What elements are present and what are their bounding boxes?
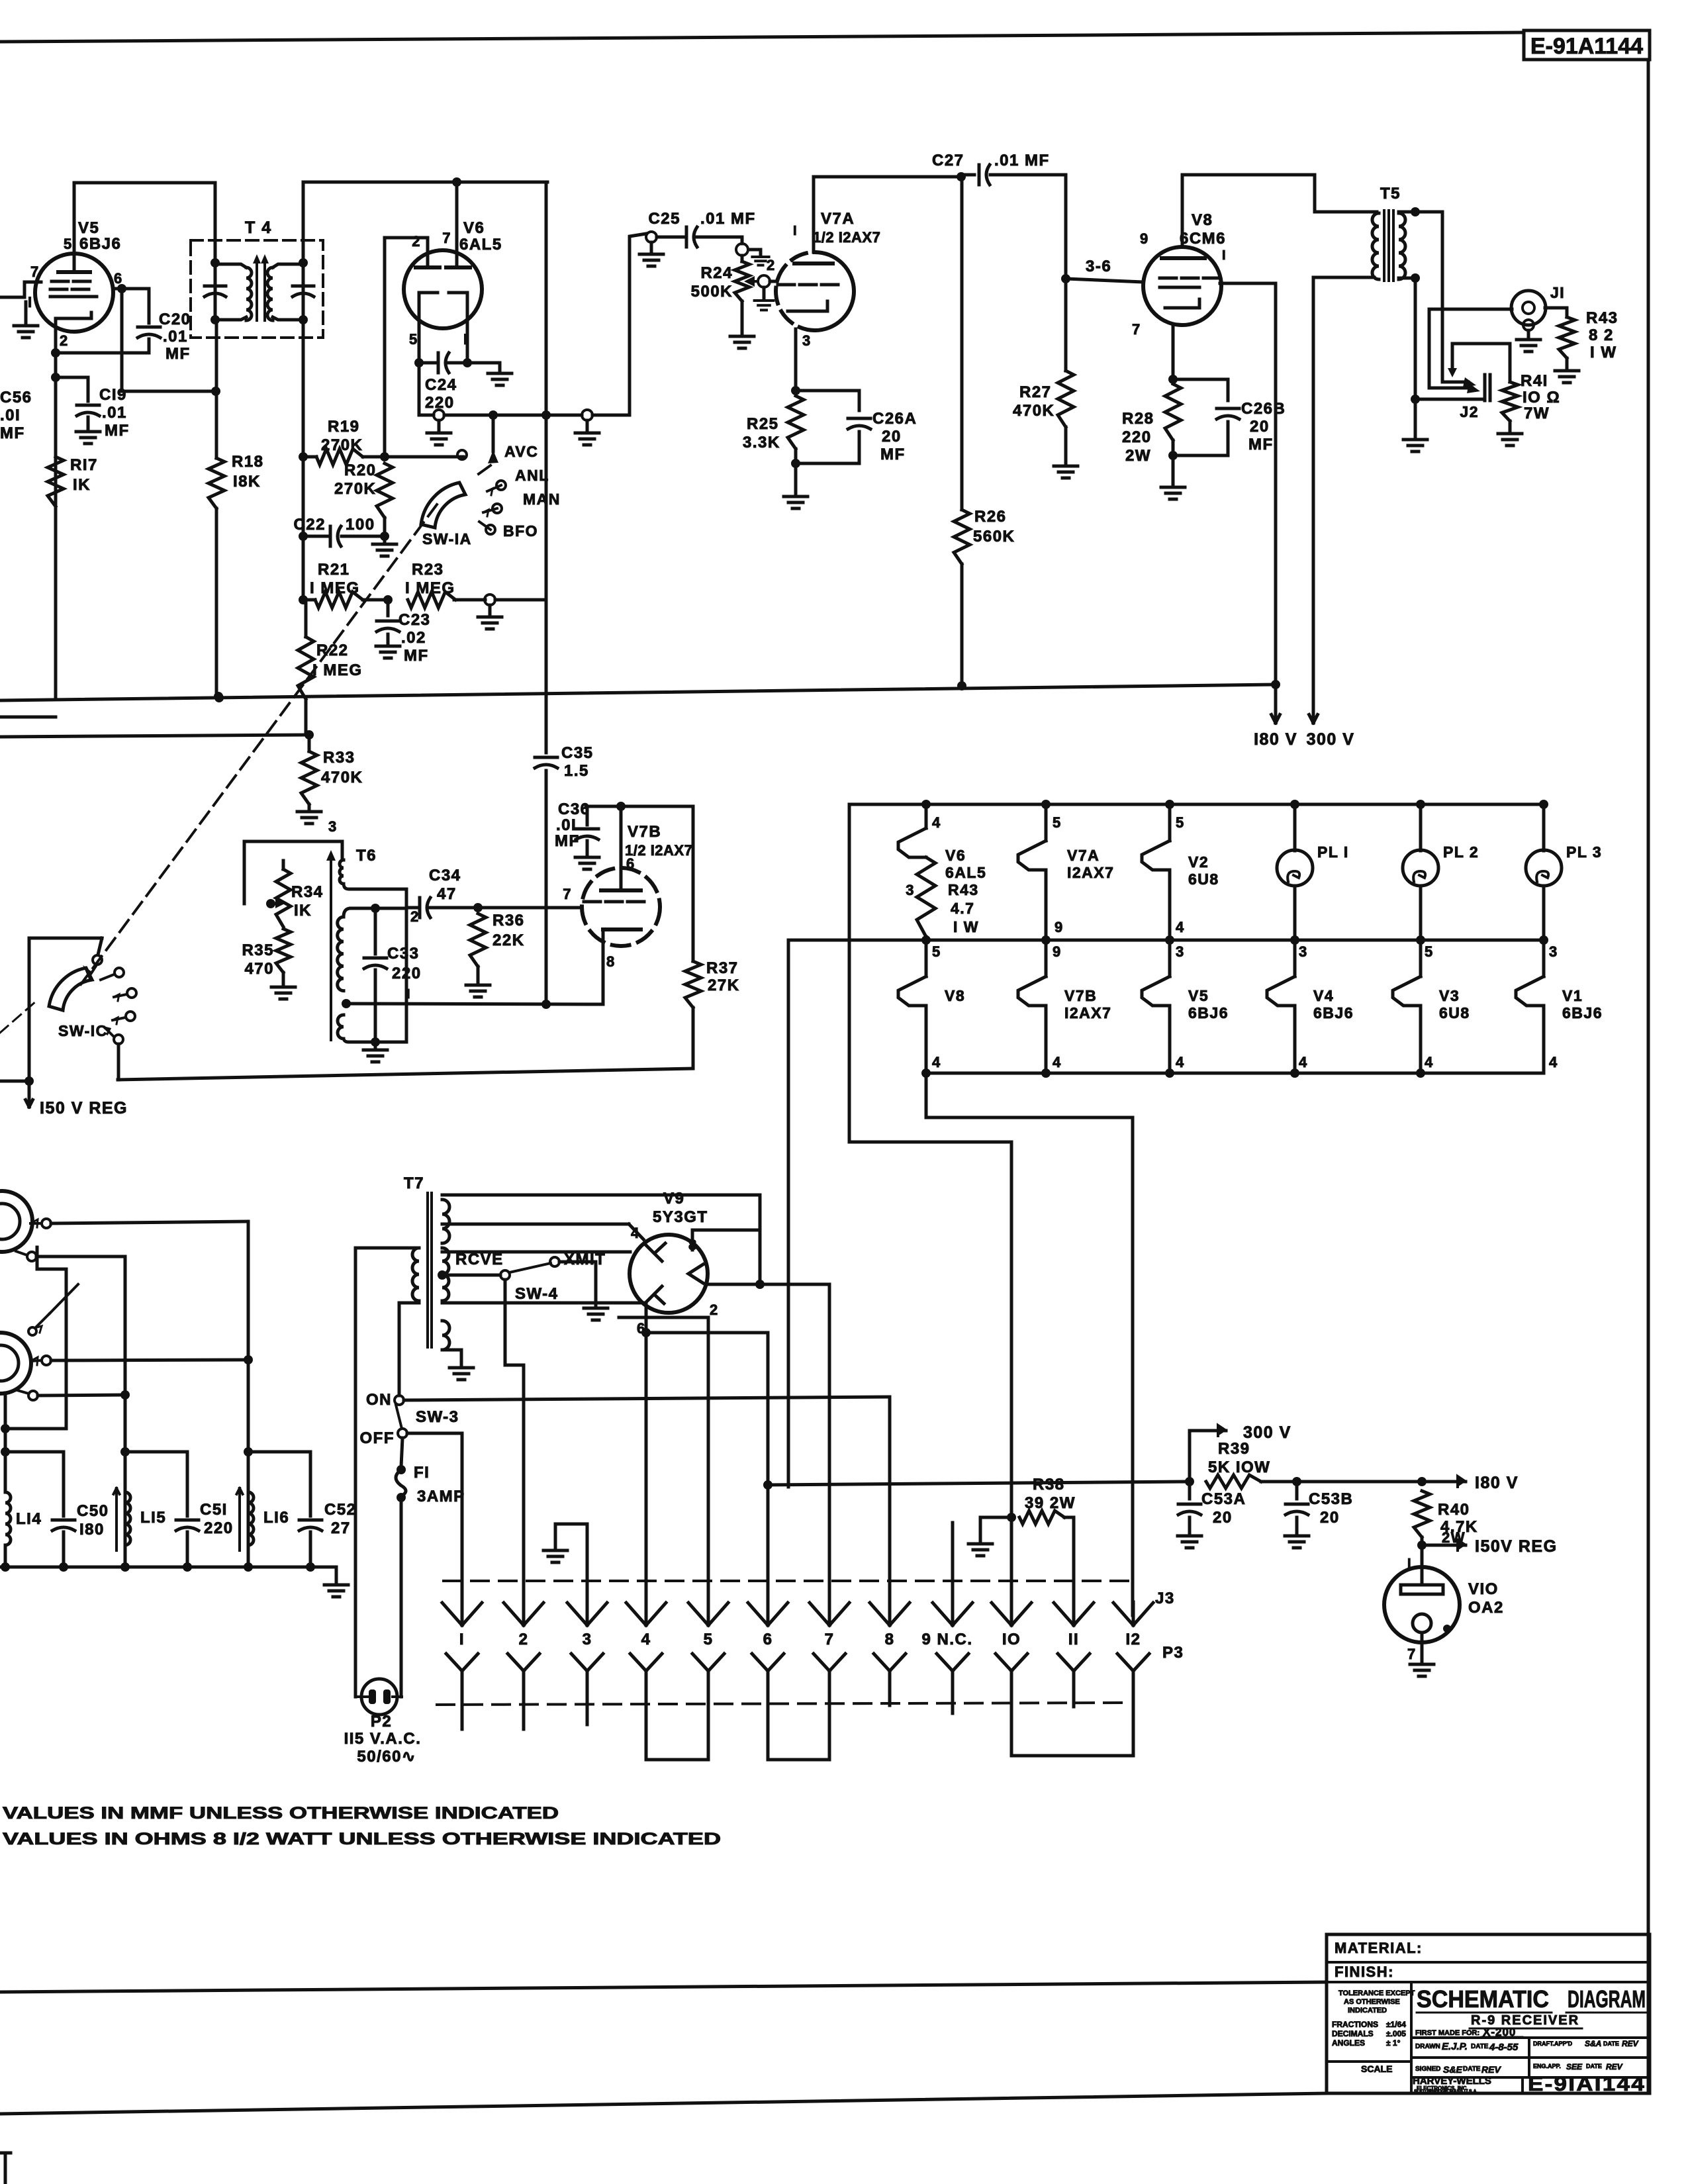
svg-text:.02: .02 [401, 629, 426, 647]
svg-text:27: 27 [331, 1519, 351, 1537]
svg-text:PL 2: PL 2 [1443, 843, 1479, 861]
svg-text:V9: V9 [663, 1190, 684, 1208]
svg-text:LI4: LI4 [16, 1510, 42, 1528]
svg-text:4-8-55: 4-8-55 [1489, 2042, 1519, 2053]
svg-text:LI5: LI5 [140, 1509, 166, 1527]
svg-text:DIAGRAM: DIAGRAM [1568, 1985, 1646, 2013]
svg-text:II: II [1068, 1631, 1079, 1648]
svg-text:R40: R40 [1438, 1501, 1470, 1519]
svg-text:4: 4 [631, 1225, 640, 1241]
svg-text:ANGLES: ANGLES [1332, 2038, 1365, 2048]
svg-text:3: 3 [802, 332, 812, 349]
svg-text:39 2W: 39 2W [1025, 1494, 1076, 1512]
svg-text:DRAWN: DRAWN [1415, 2043, 1440, 2050]
svg-text:8: 8 [606, 953, 616, 970]
svg-text:V7A: V7A [821, 210, 855, 228]
svg-text:V7A: V7A [1067, 847, 1100, 864]
svg-text:2: 2 [710, 1302, 719, 1318]
svg-text:470K: 470K [1013, 402, 1055, 420]
svg-text:6U8: 6U8 [1439, 1004, 1470, 1021]
svg-text:20: 20 [882, 428, 902, 446]
svg-text:VALUES IN OHMS 8 I/2 WATT UN: VALUES IN OHMS 8 I/2 WATT UNLESS OTHERWI… [3, 1830, 721, 1848]
svg-text:V7B: V7B [628, 823, 661, 841]
svg-text:C35: C35 [561, 744, 594, 762]
svg-text:5K IOW: 5K IOW [1208, 1458, 1270, 1476]
svg-text:4: 4 [1176, 919, 1185, 935]
svg-text:I: I [793, 224, 798, 238]
svg-text:4: 4 [932, 814, 941, 831]
svg-text:470: 470 [244, 960, 274, 978]
svg-text:VIO: VIO [1468, 1580, 1499, 1598]
svg-text:.0I: .0I [556, 816, 577, 834]
svg-text:R43: R43 [948, 881, 979, 898]
svg-text:AVC: AVC [504, 443, 538, 460]
svg-text:R37: R37 [706, 959, 739, 977]
svg-text:I W: I W [1590, 344, 1617, 361]
svg-text:R21: R21 [318, 561, 350, 579]
svg-text:4: 4 [1549, 1054, 1558, 1070]
svg-text:4.7: 4.7 [951, 900, 974, 917]
svg-text:I50V REG: I50V REG [1475, 1537, 1558, 1556]
svg-text:3: 3 [583, 1631, 592, 1648]
svg-text:I2AX7: I2AX7 [1064, 1004, 1111, 1021]
svg-text:SW-4: SW-4 [515, 1285, 559, 1303]
svg-text:3: 3 [1176, 943, 1185, 960]
svg-text:R43: R43 [1586, 309, 1618, 327]
svg-text:V5: V5 [1188, 987, 1209, 1004]
svg-text:DATE: DATE [1463, 2065, 1481, 2073]
svg-text:MF: MF [0, 424, 25, 442]
svg-text:ON: ON [366, 1391, 392, 1409]
svg-text:V7B: V7B [1064, 987, 1097, 1004]
svg-text:5: 5 [64, 236, 73, 252]
svg-text:2: 2 [767, 257, 776, 273]
svg-text:7: 7 [825, 1631, 835, 1648]
svg-text:I80 V: I80 V [1475, 1474, 1519, 1492]
svg-text:C23: C23 [399, 611, 431, 629]
svg-text:BFO: BFO [503, 522, 538, 540]
svg-text:R33: R33 [323, 749, 355, 767]
svg-text:7: 7 [1407, 1646, 1417, 1662]
svg-text:T 4: T 4 [245, 218, 272, 237]
svg-text:7: 7 [1132, 321, 1141, 338]
svg-text:FRACTIONS: FRACTIONS [1332, 2020, 1378, 2029]
svg-text:C34: C34 [429, 867, 461, 884]
svg-text:ANL: ANL [515, 467, 549, 484]
svg-text:C25: C25 [648, 210, 680, 228]
svg-text:II5 V.A.C.: II5 V.A.C. [344, 1730, 422, 1748]
svg-text:RI7: RI7 [70, 456, 98, 474]
svg-text:R23: R23 [412, 561, 444, 579]
svg-text:R24: R24 [700, 264, 733, 282]
svg-text:R38: R38 [1033, 1476, 1065, 1494]
svg-text:270K: 270K [334, 480, 376, 498]
svg-text:2: 2 [60, 332, 69, 349]
svg-text:I MEG: I MEG [310, 579, 360, 597]
svg-text:C52: C52 [324, 1501, 357, 1519]
svg-text:3: 3 [1299, 943, 1308, 960]
svg-text:P3: P3 [1162, 1644, 1184, 1662]
svg-text:V1: V1 [1562, 987, 1583, 1004]
svg-text:R18: R18 [232, 453, 264, 471]
svg-text:6BJ6: 6BJ6 [1562, 1004, 1603, 1021]
svg-text:MF: MF [880, 446, 906, 463]
svg-text:FINISH:: FINISH: [1335, 1964, 1394, 1980]
svg-text:7: 7 [30, 263, 40, 280]
svg-text:3AMP: 3AMP [417, 1488, 465, 1505]
svg-text:V5: V5 [78, 219, 99, 237]
svg-text:6: 6 [626, 855, 635, 872]
svg-text:TOLERANCE EXCEPT: TOLERANCE EXCEPT [1338, 1989, 1415, 1997]
svg-text:1/2 I2AX7: 1/2 I2AX7 [813, 229, 880, 246]
svg-text:R4I: R4I [1521, 372, 1548, 390]
svg-text:9: 9 [1055, 919, 1064, 935]
svg-text:±1/64: ±1/64 [1386, 2020, 1406, 2029]
svg-text:7: 7 [563, 886, 572, 902]
svg-text:6: 6 [763, 1631, 773, 1648]
svg-text:V6: V6 [463, 219, 485, 237]
svg-text:7: 7 [442, 230, 451, 246]
svg-text:4: 4 [1425, 1054, 1434, 1070]
svg-text:4: 4 [1053, 1054, 1062, 1070]
svg-text:LI6: LI6 [263, 1509, 289, 1527]
svg-text:2W: 2W [1125, 447, 1151, 465]
svg-text:C24: C24 [425, 376, 457, 394]
svg-text:DATE: DATE [1603, 2040, 1619, 2047]
svg-text:3.3K: 3.3K [743, 434, 780, 451]
svg-text:R19: R19 [328, 418, 360, 436]
svg-text:C26B: C26B [1241, 400, 1286, 418]
svg-text:I8K: I8K [233, 473, 261, 491]
svg-text:.01 MF: .01 MF [700, 210, 756, 228]
svg-text:300 V: 300 V [1243, 1423, 1291, 1442]
svg-text:5: 5 [1176, 814, 1185, 831]
svg-text:6AL5: 6AL5 [945, 864, 986, 881]
svg-text:500K: 500K [691, 283, 733, 301]
svg-text:100: 100 [346, 516, 375, 534]
svg-text:±.005: ±.005 [1386, 2029, 1406, 2038]
svg-text:R22: R22 [316, 641, 349, 659]
svg-text:8 2: 8 2 [1589, 326, 1614, 344]
svg-text:560K: 560K [973, 528, 1015, 546]
svg-text:I MEG: I MEG [312, 661, 363, 679]
svg-text:9 N.C.: 9 N.C. [921, 1631, 972, 1648]
svg-text:R34: R34 [291, 883, 324, 901]
svg-text:9: 9 [1053, 943, 1062, 960]
svg-text:R20: R20 [344, 461, 377, 479]
svg-text:C20: C20 [159, 310, 191, 328]
svg-text:MATERIAL:: MATERIAL: [1335, 1940, 1423, 1956]
svg-text:3: 3 [328, 818, 338, 835]
svg-text:20: 20 [1213, 1509, 1233, 1527]
svg-text:SCALE: SCALE [1361, 2064, 1392, 2074]
svg-text:I80 V: I80 V [1254, 730, 1297, 749]
svg-text:C36: C36 [558, 800, 590, 818]
svg-text:220: 220 [1122, 428, 1152, 446]
svg-text:REV: REV [1481, 2064, 1501, 2075]
svg-text:C22: C22 [293, 516, 326, 534]
svg-text:I: I [1222, 248, 1227, 263]
svg-text:9: 9 [1140, 230, 1149, 247]
svg-text:T6: T6 [356, 847, 377, 865]
svg-text:220: 220 [392, 965, 422, 982]
svg-text:I2: I2 [1125, 1631, 1141, 1648]
svg-text:I2AX7: I2AX7 [1067, 864, 1114, 881]
svg-text:RCVE: RCVE [455, 1251, 504, 1268]
svg-text:ENG.APP.: ENG.APP. [1533, 2063, 1561, 2069]
svg-text:C53B: C53B [1309, 1490, 1353, 1508]
svg-text:R35: R35 [242, 941, 274, 959]
svg-text:4: 4 [932, 1054, 941, 1070]
svg-text:E-91A1144: E-91A1144 [1530, 34, 1643, 59]
svg-text:IK: IK [294, 902, 312, 920]
svg-text:SOUTHBRIDGE,MASS.U.S.A.: SOUTHBRIDGE,MASS.U.S.A. [1414, 2089, 1478, 2094]
svg-text:3: 3 [906, 882, 915, 898]
svg-text:3-6: 3-6 [1086, 258, 1111, 275]
svg-text:T7: T7 [404, 1174, 424, 1192]
svg-text:XMIT: XMIT [564, 1251, 606, 1268]
svg-text:J2: J2 [1460, 403, 1479, 420]
svg-text:C33: C33 [387, 945, 420, 963]
svg-text:I W: I W [953, 918, 979, 935]
svg-text:4: 4 [641, 1631, 651, 1648]
svg-text:S&A: S&A [1585, 2039, 1601, 2048]
svg-text:.01 MF: .01 MF [994, 152, 1050, 169]
svg-text:V8: V8 [945, 987, 965, 1004]
svg-text:2: 2 [412, 233, 421, 250]
svg-text:J3: J3 [1155, 1590, 1175, 1607]
svg-text:IO Ω: IO Ω [1523, 389, 1560, 406]
svg-text:22K: 22K [492, 931, 525, 949]
svg-text:INDICATED: INDICATED [1348, 2007, 1387, 2015]
svg-text:SW-3: SW-3 [416, 1408, 459, 1426]
svg-text:R26: R26 [974, 508, 1007, 526]
svg-text:I MEG: I MEG [405, 579, 455, 597]
svg-text:MF: MF [105, 422, 130, 440]
svg-text:SEE: SEE [1566, 2062, 1583, 2071]
svg-text:C53A: C53A [1201, 1490, 1246, 1508]
svg-text:20: 20 [1320, 1509, 1340, 1527]
svg-text:5: 5 [1425, 943, 1434, 960]
svg-text:R28: R28 [1122, 410, 1154, 428]
svg-text:IK: IK [73, 476, 91, 494]
svg-text:T5: T5 [1380, 185, 1401, 203]
svg-text:47: 47 [437, 885, 457, 903]
svg-text:5: 5 [1053, 814, 1062, 831]
svg-text:C27: C27 [932, 152, 964, 169]
svg-text:IO: IO [1002, 1631, 1021, 1648]
svg-text:DRAFT.APP'D: DRAFT.APP'D [1533, 2040, 1573, 2047]
svg-text:6BJ6: 6BJ6 [1188, 1004, 1229, 1021]
svg-text:C26A: C26A [872, 410, 917, 428]
svg-text:6AL5: 6AL5 [459, 236, 502, 254]
svg-text:REV: REV [1606, 2062, 1623, 2071]
svg-text:DECIMALS: DECIMALS [1332, 2029, 1374, 2038]
svg-text:4: 4 [1176, 1054, 1185, 1070]
svg-text:PL I: PL I [1317, 843, 1349, 861]
svg-text:50/60∿: 50/60∿ [357, 1748, 416, 1766]
svg-text:27K: 27K [708, 976, 740, 994]
svg-text:I: I [459, 1631, 465, 1648]
svg-text:E-9IAI144: E-9IAI144 [1528, 2072, 1646, 2095]
svg-text:2: 2 [519, 1631, 529, 1648]
svg-text:VALUES IN MMF UNLESS OTHERWISE: VALUES IN MMF UNLESS OTHERWISE INDICATED [3, 1804, 559, 1823]
svg-text:REV: REV [1622, 2039, 1639, 2048]
svg-text:C5I: C5I [200, 1501, 228, 1519]
svg-text:± 1°: ± 1° [1386, 2038, 1401, 2048]
svg-text:DATE: DATE [1586, 2063, 1602, 2069]
svg-text:220: 220 [204, 1519, 234, 1537]
svg-text:AS OTHERWISE: AS OTHERWISE [1344, 1998, 1400, 2006]
svg-text:270K: 270K [321, 436, 363, 454]
svg-text:5: 5 [932, 943, 941, 960]
svg-text:V8: V8 [1192, 211, 1213, 229]
svg-text:I80: I80 [79, 1521, 105, 1539]
svg-text:OFF: OFF [360, 1429, 395, 1447]
svg-text:P2: P2 [371, 1713, 392, 1731]
svg-text:I: I [28, 294, 33, 310]
svg-text:R25: R25 [747, 415, 779, 433]
svg-text:1.5: 1.5 [564, 762, 589, 780]
svg-text:8: 8 [885, 1631, 895, 1648]
svg-text:V4: V4 [1313, 987, 1334, 1004]
svg-text:PL 3: PL 3 [1566, 843, 1602, 861]
svg-text:MF: MF [404, 647, 429, 665]
svg-text:MF: MF [165, 345, 191, 363]
svg-text:5: 5 [409, 331, 418, 348]
svg-text:FI: FI [414, 1464, 430, 1482]
svg-text:E.J.P.: E.J.P. [1442, 2041, 1468, 2052]
svg-text:R36: R36 [492, 912, 525, 929]
svg-text:6BJ6: 6BJ6 [79, 235, 121, 253]
svg-text:.0I: .0I [0, 406, 21, 424]
svg-text:OA2: OA2 [1468, 1599, 1504, 1617]
svg-text:20: 20 [1250, 418, 1270, 436]
svg-text:4: 4 [1299, 1054, 1308, 1070]
svg-text:.01: .01 [102, 404, 127, 422]
svg-text:V2: V2 [1188, 853, 1209, 871]
svg-text:6CM6: 6CM6 [1180, 230, 1226, 248]
svg-text:V3: V3 [1439, 987, 1460, 1004]
svg-text:6U8: 6U8 [1188, 871, 1219, 888]
svg-text:R27: R27 [1019, 383, 1052, 401]
svg-text:I: I [406, 987, 411, 1002]
svg-text:.01: .01 [163, 328, 188, 346]
svg-text:R39: R39 [1218, 1440, 1250, 1458]
svg-text:MAN: MAN [523, 491, 561, 508]
svg-text:5: 5 [704, 1631, 714, 1648]
svg-text:3: 3 [1549, 943, 1558, 960]
svg-text:DATE: DATE [1471, 2043, 1489, 2050]
svg-text:470K: 470K [321, 769, 363, 786]
svg-text:I50 V REG: I50 V REG [40, 1099, 128, 1117]
svg-text:MF: MF [555, 832, 580, 850]
svg-text:SW-IA: SW-IA [422, 530, 472, 547]
svg-text:MF: MF [1248, 436, 1274, 453]
svg-text:300 V: 300 V [1307, 730, 1355, 749]
svg-text:FIRST MADE FOR:: FIRST MADE FOR: [1415, 2029, 1479, 2037]
svg-text:S&E: S&E [1443, 2064, 1462, 2075]
svg-text:C56: C56 [0, 389, 32, 406]
svg-text:SCHEMATIC: SCHEMATIC [1417, 1985, 1549, 2013]
svg-text:SW-IC: SW-IC [58, 1022, 108, 1039]
svg-text:C50: C50 [77, 1502, 109, 1520]
svg-text:5Y3GT: 5Y3GT [653, 1208, 708, 1226]
svg-text:6BJ6: 6BJ6 [1313, 1004, 1354, 1021]
svg-text:7W: 7W [1524, 404, 1550, 422]
svg-text:V6: V6 [945, 847, 966, 864]
svg-text:CI9: CI9 [99, 386, 127, 404]
svg-text:JI: JI [1550, 284, 1565, 301]
svg-text:SIGNED: SIGNED [1415, 2065, 1440, 2073]
